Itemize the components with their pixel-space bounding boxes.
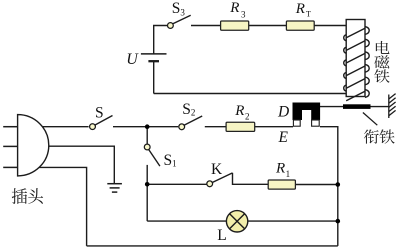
- wire junction to S1: [146, 127, 148, 145]
- leader line to 衔铁: [363, 113, 377, 126]
- label 电磁铁 char 磁: [374, 55, 389, 68]
- label 电磁铁 char 电: [376, 41, 390, 54]
- wall anchor: [389, 94, 396, 118]
- wire S to S2 with node: [113, 126, 178, 128]
- svg-text:D: D: [277, 104, 289, 121]
- node junction R1/right vertical: [336, 182, 341, 187]
- electromagnet core: [346, 20, 365, 97]
- label 衔铁 char 衔: [364, 130, 379, 144]
- wire contact bar to armature: [320, 106, 343, 108]
- label 衔铁 char 铁: [379, 129, 394, 143]
- electromagnet coil left bumps: [344, 35, 346, 92]
- switch K: [207, 173, 233, 187]
- wire contact E to right vertical: [320, 127, 338, 246]
- wire armature to wall: [371, 106, 389, 108]
- contact pad D left: [293, 120, 300, 126]
- electromagnet coil right bumps: [365, 27, 369, 98]
- resistor R3: [221, 21, 249, 30]
- wire R3 to RT: [249, 25, 287, 27]
- plug prongs: [3, 127, 17, 168]
- wire S1 down to lamp branch: [146, 165, 148, 221]
- wire R2 to contact D: [255, 126, 293, 128]
- resistor R2: [226, 122, 255, 131]
- switch S: [90, 116, 113, 130]
- node junction S1/K: [145, 182, 150, 187]
- resistor R1: [268, 180, 295, 189]
- node junction S/S1/S2: [145, 124, 150, 129]
- wire S2 to R2: [205, 126, 226, 128]
- switch S1: [144, 144, 160, 166]
- label 电磁铁 char 铁: [374, 69, 389, 83]
- wire bottom return: [87, 245, 338, 247]
- label 插头 char 头: [28, 188, 43, 204]
- wire battery top to S3: [154, 26, 168, 54]
- resistor RT: [286, 21, 314, 30]
- wire lamp to right vertical: [248, 220, 338, 222]
- wire S3 to R3: [191, 25, 221, 27]
- switch S2: [179, 116, 202, 130]
- contact pad E right: [312, 120, 320, 126]
- battery U: [141, 54, 167, 61]
- wire K post to R1: [233, 173, 269, 184]
- wire coil bottom to battery: [154, 93, 347, 95]
- earth ground: [107, 184, 122, 192]
- plug body: [18, 115, 49, 176]
- wire lamp branch left: [147, 220, 226, 222]
- relay contact D block: [293, 103, 321, 121]
- svg-text:L: L: [217, 227, 226, 244]
- electromagnet coil diagonals: [346, 28, 365, 101]
- switch S3: [168, 15, 191, 28]
- wire plug bottom prong down: [38, 167, 87, 246]
- lamp L: [226, 211, 247, 232]
- wire R1 to right vertical: [295, 184, 337, 186]
- wire plug middle prong to earth: [42, 146, 114, 183]
- svg-text:K: K: [211, 161, 223, 178]
- wire battery bottom: [153, 61, 155, 93]
- svg-text:S: S: [95, 105, 104, 122]
- wire plug top prong to S: [40, 126, 89, 128]
- wire RT to coil: [314, 25, 346, 27]
- svg-text:E: E: [278, 129, 289, 146]
- wire K branch left: [147, 183, 207, 185]
- label 插头 char 插: [12, 188, 27, 204]
- armature bar: [343, 104, 371, 109]
- svg-text:U: U: [126, 51, 139, 68]
- node junction lamp/right vertical: [336, 219, 341, 224]
